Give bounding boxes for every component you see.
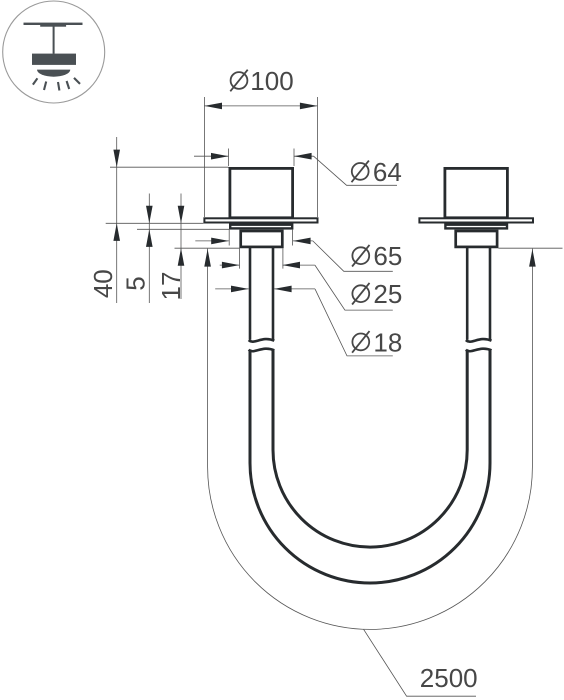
svg-text:25: 25: [373, 279, 402, 309]
arrow O65 left: [211, 238, 229, 245]
label O25: [352, 279, 402, 309]
right tube inner wall upper segment: [466, 247, 469, 340]
svg-text:40: 40: [88, 269, 118, 298]
right tube outer wall upper segment: [489, 247, 492, 340]
dim 2500 right dimension line: [531, 249, 533, 467]
dim 2500 arc: [208, 467, 533, 629]
right canopy cylinder body: [445, 168, 508, 217]
dim 2500 right extension line: [498, 247, 562, 249]
dim O25 left extension line: [239, 248, 241, 268]
left tube outer wall upper segment: [249, 247, 252, 340]
dim 5 line: [148, 194, 150, 304]
right ring below flange: [445, 225, 507, 229]
right flange plate: [419, 218, 533, 222]
dim O65 left extension line: [228, 230, 230, 246]
dim O65 dimension line right tail: [293, 240, 313, 242]
arrow O25 right: [282, 262, 300, 269]
tube inner wall U path: [273, 350, 467, 547]
svg-text:17: 17: [156, 272, 186, 301]
dim O65 right extension line: [292, 230, 294, 246]
arrow 2500 right: [529, 249, 536, 267]
arrow 5 bottom: [146, 229, 153, 247]
arrow O18 right: [274, 286, 292, 293]
svg-text:2500: 2500: [420, 663, 478, 693]
label O18: [352, 327, 402, 357]
svg-text:5: 5: [121, 276, 151, 290]
extension line cylinder top level: [110, 166, 229, 168]
dim 40 line: [116, 137, 118, 303]
svg-text:100: 100: [250, 66, 293, 96]
dim O65 dimension line left tail: [195, 240, 229, 242]
arrow O100 right: [300, 103, 318, 110]
icon lamp body: [32, 54, 76, 65]
extension line C step bottom level: [175, 247, 240, 249]
dim O25 leader: [315, 265, 393, 310]
dim O64 dimension line left tail: [194, 155, 229, 157]
left tube inner wall upper segment: [272, 247, 275, 340]
dim 2500 leader: [364, 629, 477, 696]
arrow 17 top: [178, 206, 185, 224]
dim O65 leader: [313, 241, 393, 271]
label O100: [230, 66, 293, 96]
arrow 40 top: [113, 150, 120, 168]
dim 2500 left dimension line: [207, 249, 209, 467]
tube walls: [249, 247, 492, 583]
arrow O18 left: [231, 286, 249, 293]
arrow O25 left: [222, 262, 240, 269]
svg-text:18: 18: [373, 327, 402, 357]
dim O25 dimension line right tail: [282, 264, 315, 266]
arrow 40 bottom: [113, 223, 120, 241]
svg-text:65: 65: [373, 241, 402, 271]
left ring below flange: [230, 225, 292, 229]
dim O25 dimension line left tail: [220, 264, 240, 266]
icon ceiling bar: [24, 23, 83, 25]
arrow 5 top: [146, 206, 153, 224]
left tube break upper wave: [249, 339, 275, 342]
dim O64 right extension line: [293, 149, 295, 167]
arrowheads: [113, 103, 535, 293]
dim O100 dimension line: [204, 105, 317, 107]
icon canopy plate: [40, 25, 66, 27]
dim O64 dimension line right tail: [294, 155, 314, 157]
dim O64 left extension line: [228, 149, 230, 167]
arrow O64 left: [211, 153, 229, 160]
label O65: [352, 241, 402, 271]
icon shade dome: [37, 70, 70, 77]
extension line B ring bottom level: [137, 228, 230, 230]
left canopy cylinder body: [230, 168, 293, 217]
svg-text:64: 64: [373, 157, 402, 187]
dim O64 leader: [314, 156, 397, 185]
dim O100 left extension line: [203, 97, 205, 217]
dim 17 line: [180, 194, 182, 300]
right tube break upper wave: [466, 339, 492, 342]
left flange plate: [204, 218, 317, 222]
icon light rays: [33, 78, 80, 91]
dim O100 right extension line: [317, 97, 319, 217]
icon stem: [53, 26, 55, 54]
extension line A flange bottom level: [106, 222, 204, 224]
thin dimension linework: [106, 97, 563, 696]
arrow O64 right: [294, 153, 312, 160]
left step: [241, 231, 283, 247]
right step: [456, 231, 497, 247]
dim O25 right extension line: [282, 248, 284, 268]
dim O18 dimension line left tail: [215, 288, 248, 290]
left tube break lower wave: [249, 349, 275, 352]
arrow O65 right: [293, 238, 311, 245]
right tube break lower wave: [466, 349, 492, 352]
label O64: [352, 157, 402, 187]
arrow 2500 left: [204, 249, 211, 267]
dim O18 dimension line right tail: [274, 288, 315, 290]
arrow O100 left: [204, 103, 222, 110]
dim O18 leader: [315, 289, 393, 356]
tube outer wall U path: [250, 350, 490, 583]
arrow 17 bottom: [178, 248, 185, 266]
icon circle: [3, 1, 105, 103]
